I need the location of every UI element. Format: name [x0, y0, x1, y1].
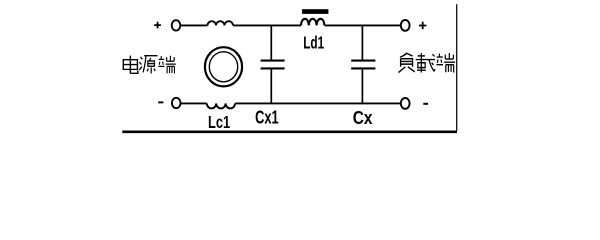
capacitor Cx1 bottom plate — [261, 67, 285, 69]
capacitor Cx bottom plate — [351, 67, 375, 69]
capacitor Cx top lead wire — [361, 25, 363, 59]
svg-text:Ld1: Ld1 — [303, 35, 324, 54]
wire bottom-right segment — [235, 102, 401, 104]
svg-text:Cx1: Cx1 — [255, 108, 279, 128]
svg-text:Lc1: Lc1 — [208, 113, 230, 133]
capacitor Cx top plate — [351, 60, 375, 62]
plus sign right — [419, 22, 426, 29]
capacitor Cx1 bottom lead wire — [270, 69, 272, 103]
common-mode choke Lc1 toroid core inner ring — [209, 52, 237, 82]
text 电源端 (power source end) drawn as strokes — [123, 56, 175, 74]
wire top-middle segment — [233, 24, 301, 26]
inductor Ld1 winding — [301, 19, 324, 26]
terminal circle bottom-right — [401, 98, 410, 109]
capacitor Cx1 top plate — [261, 60, 285, 62]
inductor Lc1 top winding — [208, 21, 234, 25]
figure bottom border line — [122, 130, 457, 133]
minus sign right — [423, 103, 428, 105]
capacitor Cx1 top lead wire — [270, 25, 272, 59]
minus sign left — [158, 101, 163, 103]
char 载 — [416, 53, 435, 73]
inductor Ld1 core bar — [302, 9, 328, 14]
figure right border line — [456, 4, 458, 131]
plus sign left — [154, 22, 161, 29]
common-mode choke Lc1 toroid core outer ring — [205, 47, 242, 86]
wire top-left segment — [181, 24, 208, 26]
char 端 — [158, 56, 175, 74]
char 端 — [436, 53, 455, 72]
terminal circle top-right — [401, 20, 410, 31]
svg-text:Cx: Cx — [353, 108, 373, 129]
char 电 — [123, 56, 138, 74]
text 负载端 (load end) drawn as strokes — [398, 53, 455, 73]
terminal circle bottom-left — [172, 98, 181, 108]
char 负 — [398, 53, 414, 73]
wire top-right segment — [324, 24, 400, 26]
terminal circle top-left — [172, 20, 181, 30]
char 源 — [139, 56, 157, 74]
inductor Lc1 bottom winding — [207, 103, 235, 108]
capacitor Cx bottom lead wire — [361, 69, 363, 103]
wire bottom-left segment — [181, 102, 207, 104]
